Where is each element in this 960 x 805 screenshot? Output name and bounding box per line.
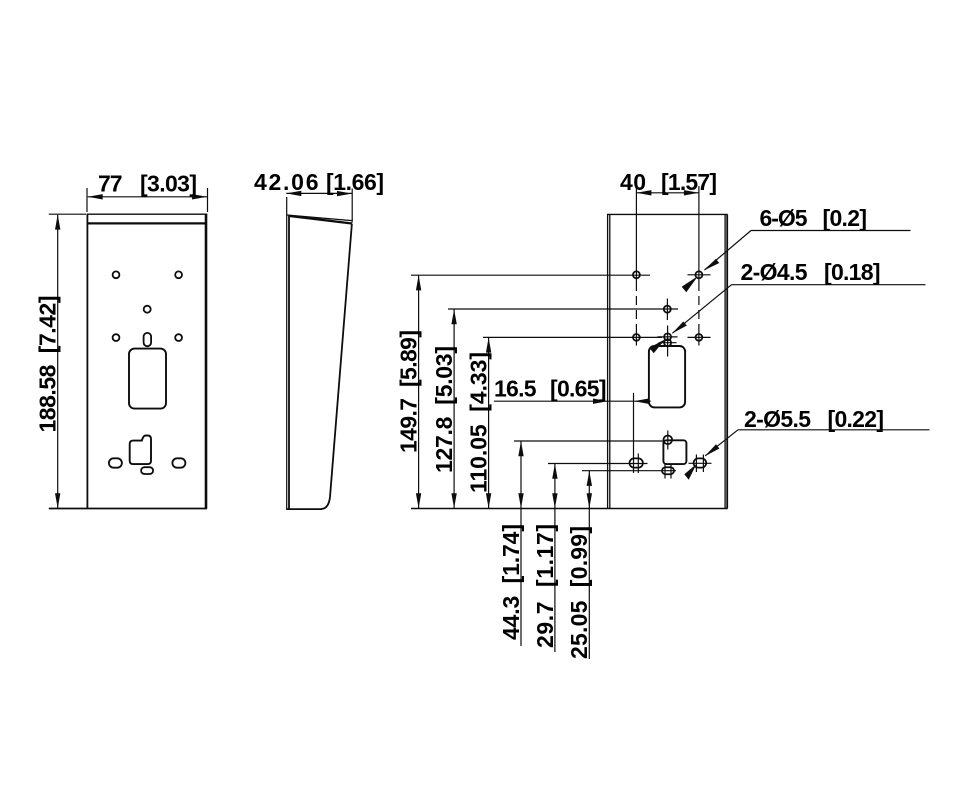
svg-text:2-Ø4.5: 2-Ø4.5 (741, 259, 808, 285)
rear circle above lower cutout (664, 431, 673, 450)
dimension 42.06 [1.66] (254, 169, 384, 223)
dimension 44.3 [1.74] (498, 441, 663, 646)
rear hole top-right (688, 271, 711, 278)
svg-text:77: 77 (98, 171, 123, 197)
rear hole mid-right (688, 334, 711, 341)
svg-text:29.7 [1.17]: 29.7 [1.17] (532, 524, 558, 648)
rear slot pair upper circle (658, 333, 678, 340)
svg-text:40: 40 (620, 169, 646, 195)
front notched cutout (130, 436, 151, 465)
rear center line middle column (666, 299, 668, 357)
side view outline (286, 197, 352, 509)
dimension 40 [1.57] (620, 169, 717, 196)
rear bottom edge + extension (411, 508, 728, 510)
rear view outline (607, 214, 728, 508)
svg-text:[1.66]: [1.66] (326, 169, 384, 195)
svg-text:110.05 [4.33]: 110.05 [4.33] (466, 352, 492, 493)
svg-text:42.06: 42.06 (254, 169, 319, 195)
rear hole mid-left (633, 334, 640, 341)
dimension 25.05 [0.99] (566, 471, 676, 659)
svg-text:6-Ø5: 6-Ø5 (760, 205, 808, 231)
label 2-O4.5 [0.18] with leader (649, 259, 925, 353)
front oval bottom-left (109, 458, 122, 467)
front large cutout (129, 349, 166, 409)
dimension 149.7 [5.89] (395, 275, 650, 508)
rear lower cutout (663, 440, 686, 464)
rear center lines column right (698, 186, 700, 346)
svg-text:127.8 [5.03]: 127.8 [5.03] (431, 346, 457, 473)
svg-text:[0.65]: [0.65] (550, 376, 607, 402)
dimension 110.05 [4.33] (466, 337, 663, 508)
front view outline (87, 214, 208, 508)
svg-text:[1.57]: [1.57] (661, 169, 717, 195)
dimension 77 [3.03] (87, 171, 208, 213)
svg-text:44.3 [1.74]: 44.3 [1.74] (498, 524, 524, 640)
front hole center (144, 306, 151, 313)
front hole mid-left (113, 334, 120, 341)
rear oval bottom-center (662, 464, 674, 479)
dimension 16.5 [0.65] (494, 376, 651, 473)
front hole mid-right (175, 334, 182, 341)
rear large cutout (649, 346, 685, 407)
label 6-O5 [0.2] with leader (682, 205, 911, 292)
svg-text:25.05 [0.99]: 25.05 [0.99] (566, 526, 592, 659)
rear oval bottom-left (630, 454, 643, 474)
front vertical slot (144, 333, 152, 346)
front oval bottom-right (172, 458, 185, 467)
rear slot pair lower circle (659, 339, 677, 346)
rear hole top-left (633, 271, 640, 278)
svg-text:[3.03]: [3.03] (140, 171, 197, 197)
svg-text:16.5: 16.5 (494, 376, 537, 402)
svg-text:149.7 [5.89]: 149.7 [5.89] (395, 330, 421, 453)
dimension 29.7 [1.17] (532, 464, 648, 653)
front hole top-right (175, 271, 182, 278)
rear hole center (664, 306, 671, 313)
svg-text:188.58 [7.42]: 188.58 [7.42] (35, 296, 61, 433)
dimension 127.8 [5.03] (431, 309, 678, 508)
front oval bottom-center (141, 467, 153, 474)
label 2-O5.5 [0.22] with leader (684, 406, 929, 480)
rear center lines column left (635, 186, 637, 346)
svg-text:2-Ø5.5: 2-Ø5.5 (744, 406, 811, 432)
svg-text:[0.22]: [0.22] (828, 406, 885, 432)
svg-text:[0.2]: [0.2] (823, 205, 868, 231)
dimension 188.58 [7.42] (35, 214, 208, 508)
svg-text:[0.18]: [0.18] (824, 259, 881, 285)
front hole top-left (113, 271, 120, 278)
rear oval bottom-right (689, 455, 712, 473)
